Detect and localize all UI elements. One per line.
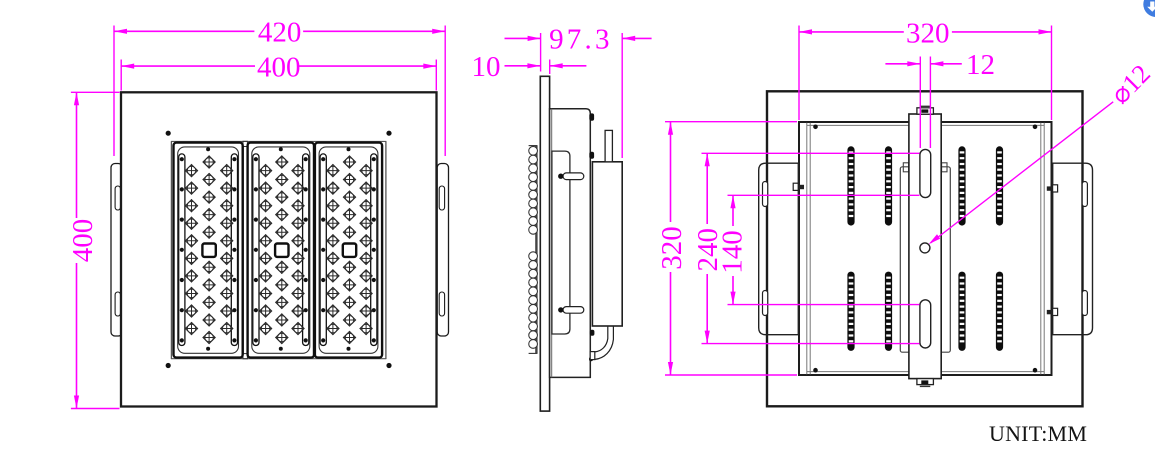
svg-text:320: 320 — [906, 17, 950, 49]
svg-text:10: 10 — [472, 51, 501, 83]
svg-text:400: 400 — [67, 219, 99, 263]
svg-text:420: 420 — [258, 17, 302, 49]
svg-text:12: 12 — [966, 49, 995, 81]
svg-text:UNIT:MM: UNIT:MM — [989, 421, 1087, 446]
svg-text:140: 140 — [716, 230, 748, 274]
svg-text:400: 400 — [257, 51, 301, 83]
svg-text:97.3: 97.3 — [549, 24, 613, 56]
svg-text:320: 320 — [656, 226, 688, 270]
